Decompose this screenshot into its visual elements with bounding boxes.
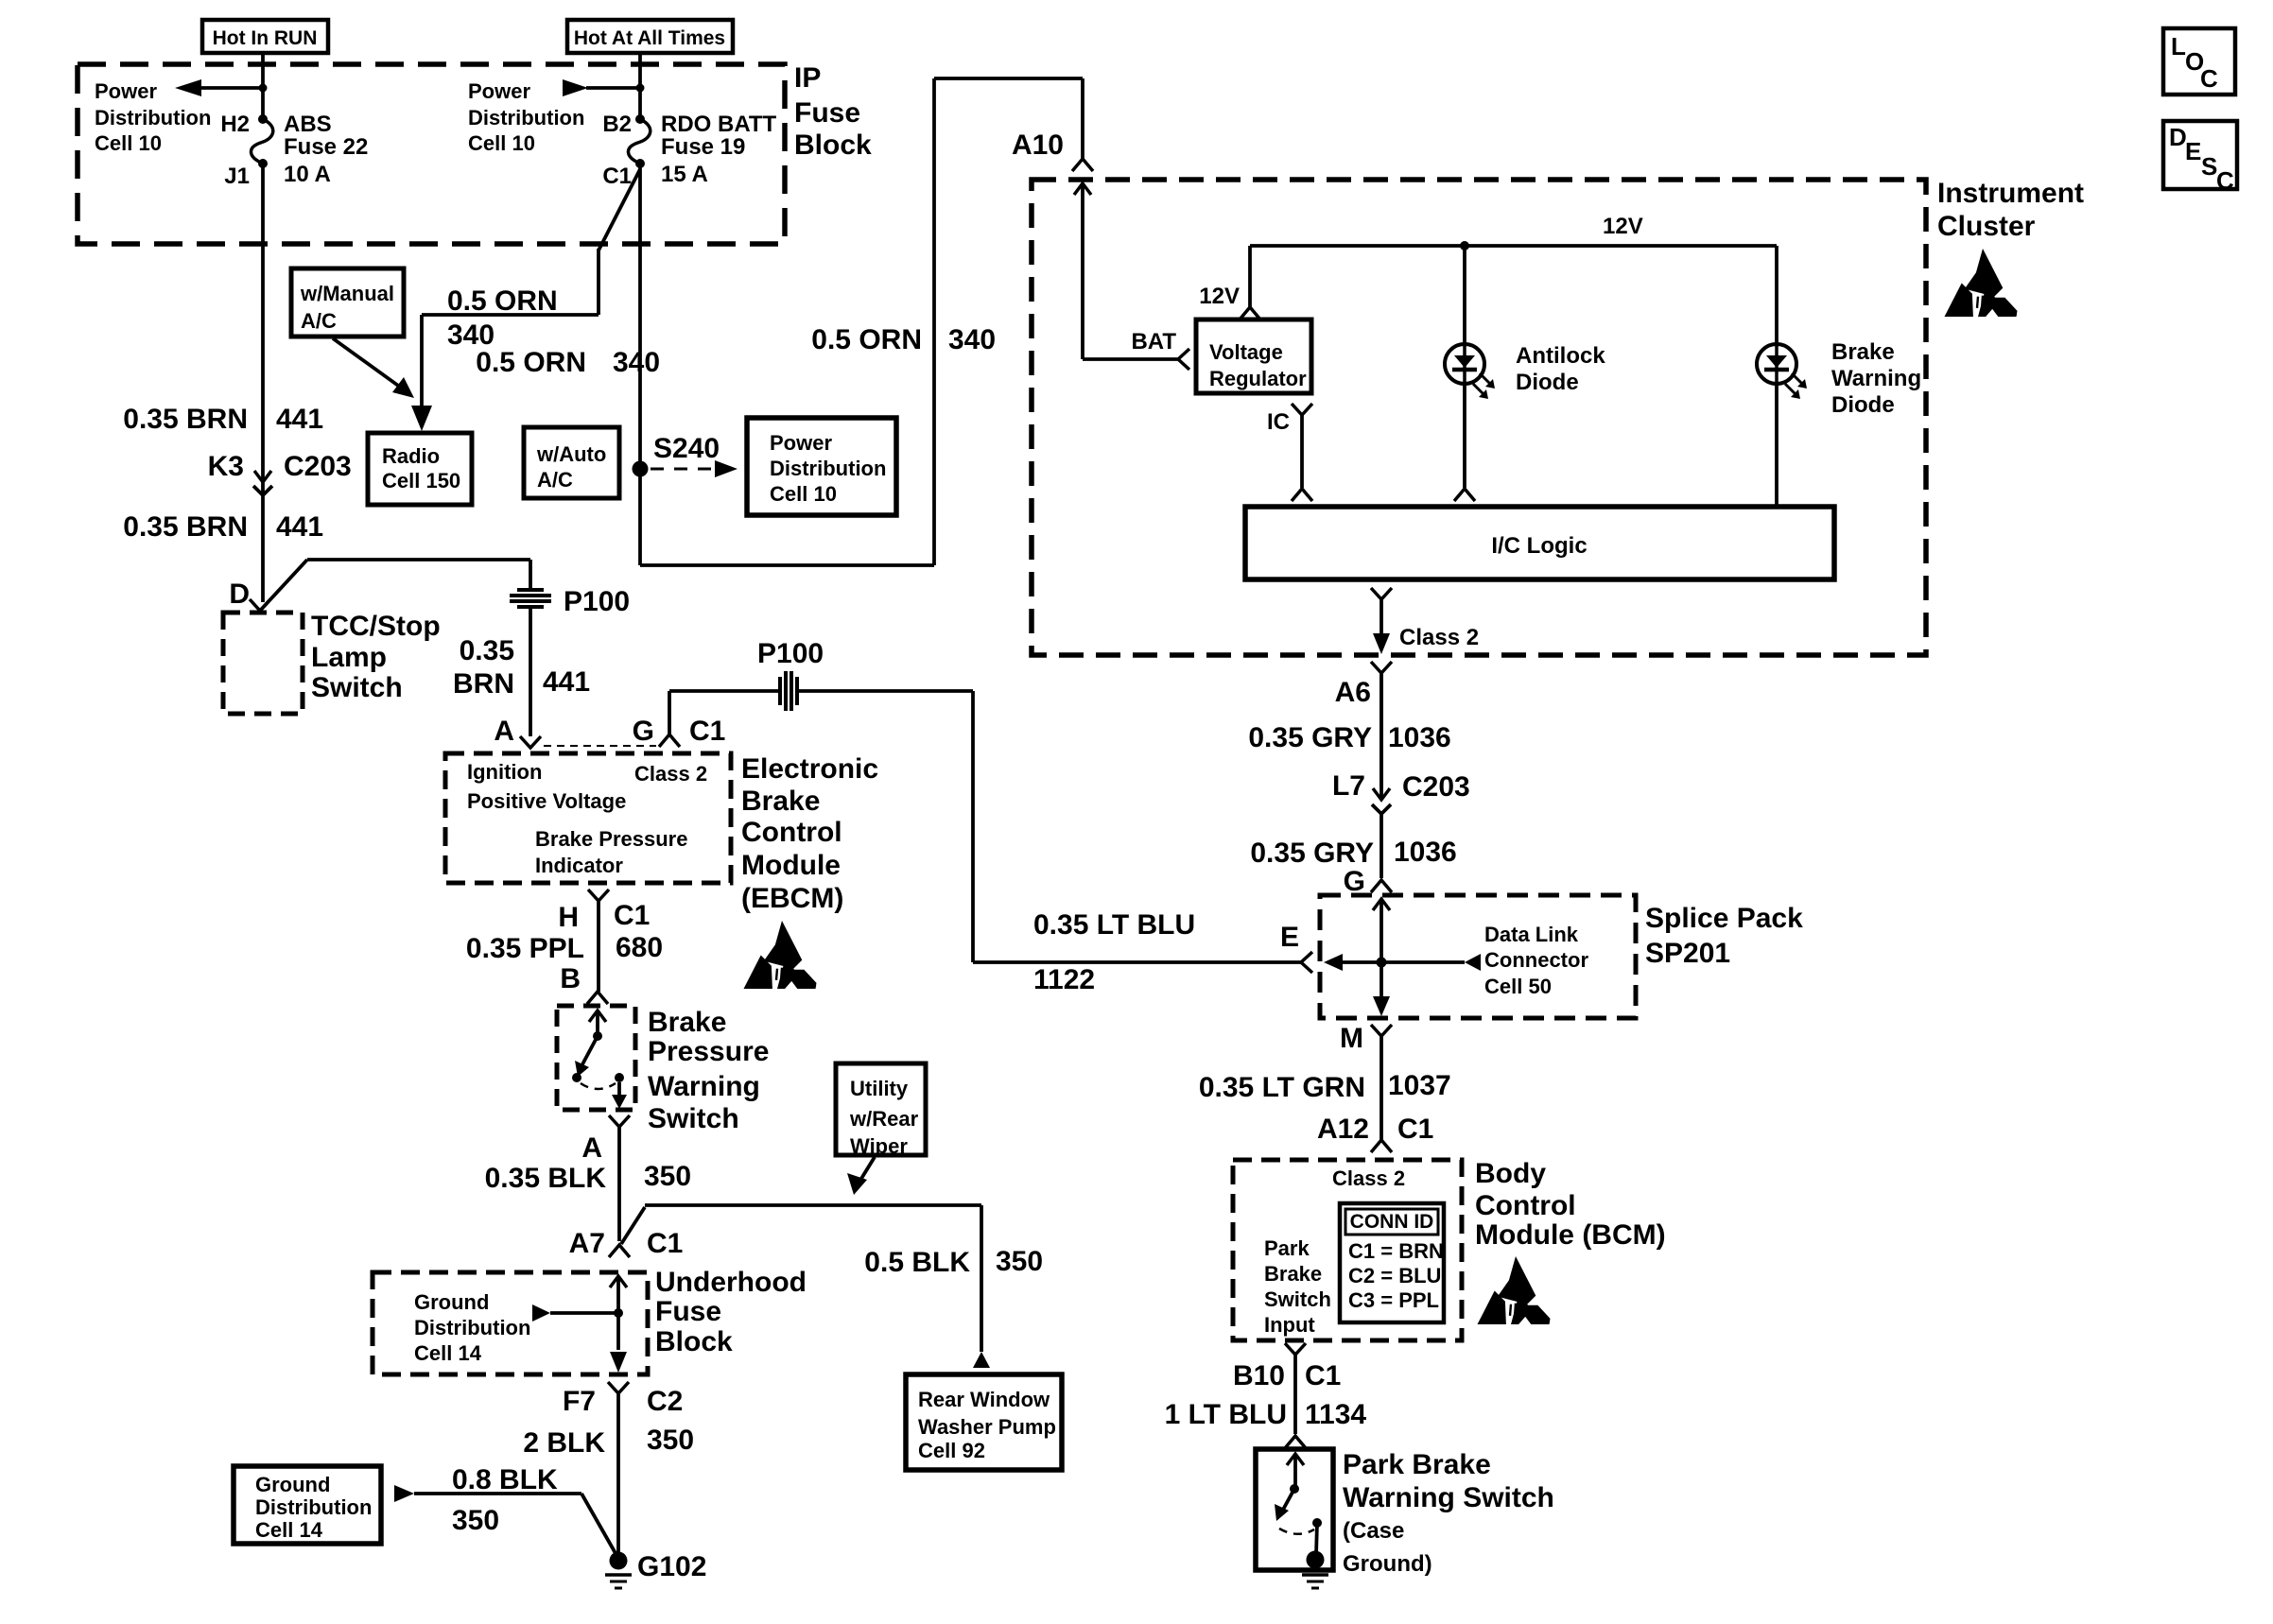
svg-text:RDO BATT: RDO BATT — [661, 112, 777, 137]
svg-text:S: S — [2201, 152, 2217, 181]
svg-text:B2: B2 — [602, 112, 632, 137]
svg-text:A7: A7 — [569, 1228, 605, 1259]
svg-text:0.35 BRN: 0.35 BRN — [123, 404, 248, 435]
svg-text:Rear Window: Rear Window — [918, 1388, 1050, 1411]
svg-text:Brake: Brake — [1831, 339, 1895, 365]
svg-text:D: D — [2169, 123, 2187, 151]
svg-text:Cell 14: Cell 14 — [414, 1341, 482, 1365]
svg-text:C1: C1 — [647, 1228, 683, 1259]
svg-text:Ground: Ground — [414, 1290, 489, 1314]
svg-text:Connector: Connector — [1484, 948, 1588, 972]
svg-text:Cell 10: Cell 10 — [468, 131, 535, 155]
svg-text:Hot At All Times: Hot At All Times — [574, 27, 725, 49]
svg-text:C1: C1 — [1305, 1360, 1341, 1391]
svg-text:0.35 GRY: 0.35 GRY — [1248, 722, 1372, 753]
svg-text:E: E — [1280, 922, 1299, 953]
svg-text:0.35: 0.35 — [460, 635, 514, 666]
svg-text:CONN ID: CONN ID — [1350, 1211, 1434, 1233]
svg-text:(Case: (Case — [1343, 1518, 1404, 1544]
svg-text:Cell 10: Cell 10 — [95, 131, 162, 155]
svg-text:C: C — [2200, 64, 2218, 93]
svg-text:Park Brake: Park Brake — [1343, 1449, 1491, 1480]
svg-text:C3 = PPL: C3 = PPL — [1348, 1288, 1439, 1312]
svg-text:Class 2: Class 2 — [1399, 625, 1479, 650]
svg-text:A: A — [581, 1132, 602, 1164]
svg-text:Radio: Radio — [382, 444, 440, 468]
svg-text:1134: 1134 — [1305, 1399, 1366, 1430]
svg-text:L7: L7 — [1332, 770, 1365, 802]
svg-text:Distribution: Distribution — [770, 457, 886, 480]
svg-text:0.5 ORN: 0.5 ORN — [811, 324, 922, 355]
svg-text:H: H — [558, 902, 579, 933]
svg-text:Distribution: Distribution — [468, 106, 584, 130]
svg-text:SP201: SP201 — [1645, 938, 1730, 969]
svg-text:C1: C1 — [614, 900, 650, 931]
svg-text:C203: C203 — [284, 451, 352, 482]
svg-text:E: E — [2185, 137, 2201, 165]
svg-text:w/Rear: w/Rear — [849, 1107, 919, 1131]
svg-text:1036: 1036 — [1394, 837, 1457, 868]
svg-text:0.35 LT BLU: 0.35 LT BLU — [1033, 909, 1195, 941]
svg-text:Class 2: Class 2 — [1332, 1166, 1405, 1190]
svg-text:C2: C2 — [647, 1386, 683, 1417]
svg-text:Power: Power — [770, 431, 832, 455]
svg-text:Instrument: Instrument — [1937, 178, 2084, 209]
svg-text:Washer Pump: Washer Pump — [918, 1415, 1056, 1439]
svg-text:G: G — [1344, 866, 1365, 897]
svg-text:Module (BCM): Module (BCM) — [1475, 1219, 1666, 1251]
svg-text:D: D — [229, 579, 250, 610]
svg-text:Warning Switch: Warning Switch — [1343, 1482, 1554, 1513]
svg-text:Wiper: Wiper — [850, 1134, 908, 1158]
svg-text:Warning: Warning — [1831, 366, 1921, 391]
svg-text:Control: Control — [741, 817, 842, 848]
svg-text:Data Link: Data Link — [1484, 923, 1579, 946]
svg-text:Distribution: Distribution — [255, 1495, 372, 1519]
svg-text:A/C: A/C — [301, 309, 337, 333]
svg-text:Regulator: Regulator — [1209, 367, 1307, 390]
svg-text:441: 441 — [276, 404, 323, 435]
svg-text:Hot In RUN: Hot In RUN — [213, 27, 318, 49]
svg-text:0.5 BLK: 0.5 BLK — [864, 1247, 970, 1278]
svg-text:Fuse 22: Fuse 22 — [284, 134, 368, 160]
svg-text:Fuse: Fuse — [655, 1296, 721, 1327]
svg-text:IP: IP — [794, 62, 821, 94]
svg-text:Power: Power — [95, 79, 157, 103]
svg-text:G: G — [633, 716, 654, 747]
svg-text:Antilock: Antilock — [1516, 343, 1605, 369]
svg-text:w/Manual: w/Manual — [300, 282, 394, 305]
svg-text:A: A — [494, 716, 514, 747]
svg-text:Indicator: Indicator — [535, 854, 623, 877]
svg-text:10 A: 10 A — [284, 162, 331, 187]
svg-text:0.35 LT GRN: 0.35 LT GRN — [1199, 1072, 1365, 1103]
svg-text:Body: Body — [1475, 1158, 1546, 1189]
svg-text:15 A: 15 A — [661, 162, 708, 187]
svg-text:1 LT BLU: 1 LT BLU — [1165, 1399, 1287, 1430]
svg-text:Control: Control — [1475, 1190, 1576, 1221]
svg-text:Electronic: Electronic — [741, 753, 878, 785]
svg-text:Cell 92: Cell 92 — [918, 1439, 985, 1462]
svg-text:C2 = BLU: C2 = BLU — [1348, 1264, 1441, 1287]
svg-text:1122: 1122 — [1033, 964, 1095, 995]
svg-text:Cell 14: Cell 14 — [255, 1518, 323, 1542]
svg-text:Diode: Diode — [1831, 392, 1895, 418]
svg-text:0.35 BLK: 0.35 BLK — [485, 1163, 607, 1194]
svg-text:350: 350 — [452, 1505, 499, 1536]
svg-text:Ground: Ground — [255, 1473, 330, 1496]
svg-text:Brake: Brake — [648, 1007, 726, 1038]
svg-text:J1: J1 — [224, 164, 250, 189]
svg-text:P100: P100 — [757, 638, 824, 669]
svg-text:Module: Module — [741, 850, 841, 881]
svg-text:Power: Power — [468, 79, 530, 103]
svg-text:0.5 ORN: 0.5 ORN — [447, 285, 558, 317]
svg-text:Cell 10: Cell 10 — [770, 482, 837, 506]
svg-text:Switch: Switch — [648, 1103, 739, 1134]
svg-text:350: 350 — [647, 1425, 694, 1456]
svg-text:C: C — [2216, 166, 2234, 195]
svg-text:Ground): Ground) — [1343, 1551, 1432, 1577]
svg-text:Distribution: Distribution — [95, 106, 211, 130]
svg-text:Block: Block — [655, 1326, 733, 1357]
svg-text:K3: K3 — [208, 451, 244, 482]
svg-text:Underhood: Underhood — [655, 1267, 807, 1298]
svg-text:Diode: Diode — [1516, 370, 1579, 395]
svg-text:Distribution: Distribution — [414, 1316, 530, 1339]
svg-text:S240: S240 — [653, 433, 720, 464]
svg-text:441: 441 — [543, 666, 590, 698]
svg-text:Warning: Warning — [648, 1071, 760, 1102]
svg-text:M: M — [1340, 1023, 1363, 1054]
svg-text:Input: Input — [1264, 1313, 1315, 1337]
svg-text:1036: 1036 — [1388, 722, 1451, 753]
svg-text:A/C: A/C — [537, 468, 573, 492]
svg-text:350: 350 — [644, 1161, 691, 1192]
svg-text:C1 = BRN: C1 = BRN — [1348, 1239, 1444, 1263]
svg-text:Cluster: Cluster — [1937, 211, 2036, 242]
svg-text:Voltage: Voltage — [1209, 340, 1283, 364]
svg-text:Brake: Brake — [1264, 1262, 1322, 1286]
svg-text:0.35 GRY: 0.35 GRY — [1250, 838, 1374, 869]
svg-text:Fuse 19: Fuse 19 — [661, 134, 745, 160]
svg-text:Lamp: Lamp — [311, 642, 387, 673]
svg-text:Brake Pressure: Brake Pressure — [535, 827, 687, 851]
svg-text:Fuse: Fuse — [794, 97, 860, 129]
svg-text:Park: Park — [1264, 1236, 1310, 1260]
svg-text:Switch: Switch — [1264, 1287, 1331, 1311]
svg-text:P100: P100 — [564, 586, 630, 617]
svg-text:ABS: ABS — [284, 112, 332, 137]
svg-text:A6: A6 — [1335, 677, 1371, 708]
svg-text:G102: G102 — [637, 1551, 706, 1582]
svg-text:12V: 12V — [1199, 284, 1240, 309]
svg-text:C1: C1 — [689, 716, 725, 747]
svg-text:L: L — [2171, 32, 2186, 60]
svg-text:2 BLK: 2 BLK — [523, 1427, 605, 1459]
svg-text:0.35 PPL: 0.35 PPL — [466, 933, 584, 964]
svg-text:Class 2: Class 2 — [634, 762, 707, 786]
svg-text:441: 441 — [276, 511, 323, 543]
svg-text:350: 350 — [996, 1246, 1043, 1277]
svg-text:IC: IC — [1267, 409, 1290, 435]
svg-text:H2: H2 — [220, 112, 250, 137]
svg-text:C1: C1 — [602, 164, 632, 189]
svg-text:B10: B10 — [1233, 1360, 1285, 1391]
svg-text:A10: A10 — [1012, 130, 1064, 161]
svg-text:340: 340 — [613, 347, 660, 378]
svg-text:1037: 1037 — [1388, 1070, 1451, 1101]
svg-text:Splice Pack: Splice Pack — [1645, 903, 1803, 934]
svg-text:0.5 ORN: 0.5 ORN — [476, 347, 586, 378]
svg-text:BRN: BRN — [453, 668, 514, 700]
svg-text:Block: Block — [794, 130, 872, 161]
svg-text:w/Auto: w/Auto — [536, 442, 606, 466]
svg-text:I/C Logic: I/C Logic — [1491, 533, 1587, 559]
svg-text:680: 680 — [616, 932, 663, 963]
svg-text:F7: F7 — [563, 1386, 596, 1417]
svg-text:TCC/Stop: TCC/Stop — [311, 611, 441, 642]
svg-text:Positive Voltage: Positive Voltage — [467, 789, 626, 813]
svg-text:A12: A12 — [1317, 1114, 1369, 1145]
svg-text:B: B — [560, 963, 581, 994]
svg-text:C203: C203 — [1402, 771, 1470, 803]
svg-text:Cell 50: Cell 50 — [1484, 975, 1552, 998]
svg-text:Ignition: Ignition — [467, 760, 542, 784]
svg-text:Brake: Brake — [741, 786, 820, 817]
svg-text:Pressure: Pressure — [648, 1036, 769, 1067]
svg-text:340: 340 — [948, 324, 996, 355]
svg-text:(EBCM): (EBCM) — [741, 883, 843, 914]
svg-text:0.35 BRN: 0.35 BRN — [123, 511, 248, 543]
svg-text:Cell 150: Cell 150 — [382, 469, 460, 492]
svg-text:BAT: BAT — [1131, 329, 1176, 354]
svg-text:0.8 BLK: 0.8 BLK — [452, 1464, 558, 1495]
svg-text:C1: C1 — [1397, 1114, 1433, 1145]
svg-text:Utility: Utility — [850, 1077, 909, 1100]
svg-text:Switch: Switch — [311, 672, 403, 703]
svg-text:12V: 12V — [1603, 214, 1643, 239]
